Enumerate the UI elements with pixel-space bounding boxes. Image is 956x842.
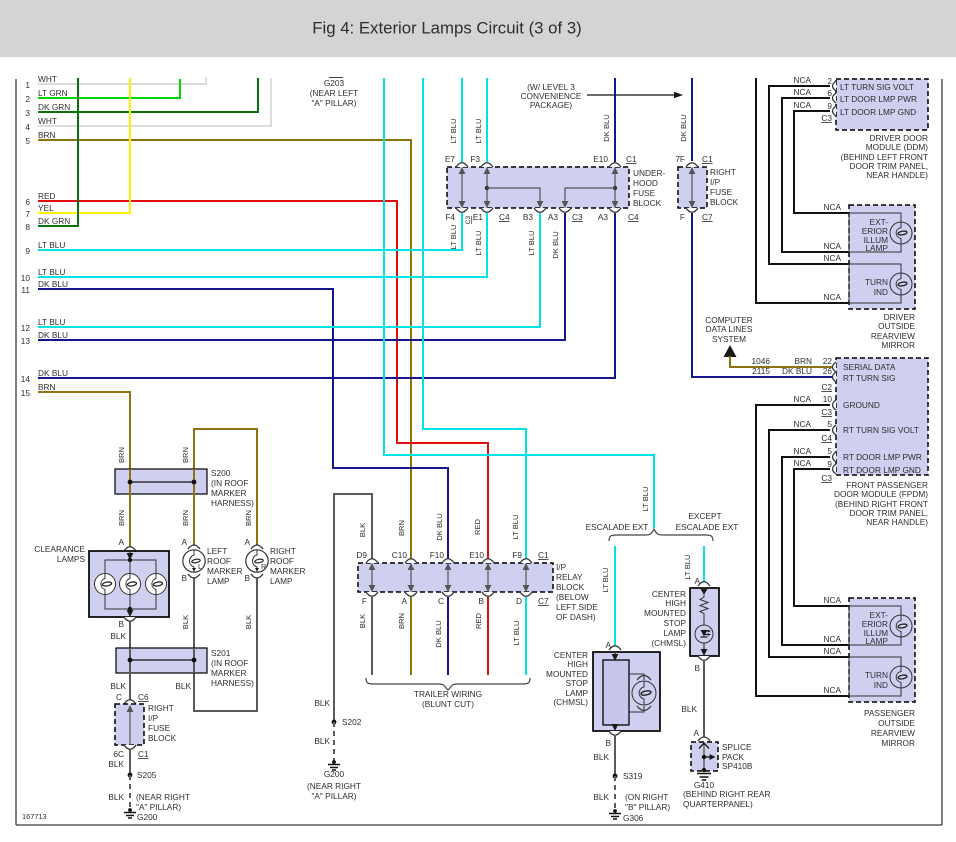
wire BRN S200 to left marker lamp <box>193 494 195 547</box>
svg-text:NCA: NCA <box>823 595 841 605</box>
wire LT BLU to F3 underhood fuse block <box>486 78 488 162</box>
svg-text:BLOCK: BLOCK <box>556 582 585 592</box>
svg-text:B: B <box>694 663 700 673</box>
clearance lamps internal loop <box>129 551 131 557</box>
left roof marker lamp <box>183 550 205 572</box>
wire 3 DK GRN <box>38 78 258 112</box>
svg-text:"B" PILLAR): "B" PILLAR) <box>625 802 670 812</box>
svg-text:C10: C10 <box>392 550 408 560</box>
svg-text:C3: C3 <box>572 212 583 222</box>
right CHMSL box (except escalade ext) <box>690 588 719 656</box>
svg-text:WHT: WHT <box>38 74 57 84</box>
pin E7 <box>456 163 468 167</box>
wire BLK left marker to S201 <box>193 577 195 648</box>
svg-text:E7: E7 <box>445 154 456 164</box>
svg-text:G203: G203 <box>324 78 345 88</box>
FPDM pin 26 <box>833 372 837 382</box>
svg-text:BRN: BRN <box>181 510 190 526</box>
svg-text:DK BLU: DK BLU <box>38 368 68 378</box>
svg-text:HOOD: HOOD <box>633 178 658 188</box>
right CHMSL bottom arrow <box>703 643 705 654</box>
wire NCA DDM pin9 to illum lamp top <box>794 111 849 213</box>
svg-text:ROOF: ROOF <box>270 556 294 566</box>
svg-text:NCA: NCA <box>823 685 841 695</box>
svg-text:LT DOOR LMP GND: LT DOOR LMP GND <box>840 107 916 117</box>
center CHMSL bulb branch <box>629 674 644 680</box>
frame right border <box>941 79 943 825</box>
svg-text:LT TURN SIG VOLT: LT TURN SIG VOLT <box>840 82 914 92</box>
clearance lamps bottom arrow <box>129 609 131 613</box>
wire NCA DDM pin6 to illum lamp bottom <box>782 98 849 252</box>
right I/P fuse block (top) <box>678 167 707 208</box>
svg-text:A3: A3 <box>548 212 559 222</box>
svg-text:8: 8 <box>25 222 30 232</box>
svg-text:BLK: BLK <box>593 792 609 802</box>
wire 6 RED to E10 of I/P relay block <box>38 201 488 559</box>
pin A3 <box>559 208 571 212</box>
svg-text:BLK: BLK <box>181 615 190 629</box>
trailer wiring brace <box>366 678 530 690</box>
underhood fuse block <box>447 167 629 208</box>
DDM pin 2 <box>833 81 837 91</box>
svg-text:22: 22 <box>823 356 833 366</box>
svg-text:(BLUNT CUT): (BLUNT CUT) <box>422 699 474 709</box>
svg-text:(NEAR RIGHT: (NEAR RIGHT <box>136 792 190 802</box>
svg-text:S200: S200 <box>211 468 231 478</box>
relay pin E10 <box>482 559 494 563</box>
passenger turn ind loop <box>849 657 901 696</box>
svg-text:C1: C1 <box>626 154 637 164</box>
svg-text:MOUNTED: MOUNTED <box>644 608 686 618</box>
wire BLK S205 to G200 <box>129 775 131 809</box>
svg-text:6: 6 <box>827 88 832 98</box>
svg-text:F9: F9 <box>512 550 522 560</box>
svg-text:C3: C3 <box>821 113 832 123</box>
svg-text:RIGHT: RIGHT <box>270 546 296 556</box>
svg-text:(IN ROOF: (IN ROOF <box>211 658 248 668</box>
svg-text:DK BLU: DK BLU <box>551 231 560 258</box>
svg-text:LAMP: LAMP <box>865 243 888 253</box>
svg-text:DATA LINES: DATA LINES <box>706 324 753 334</box>
ground G306 <box>613 809 617 813</box>
svg-text:LEFT SIDE: LEFT SIDE <box>556 602 598 612</box>
svg-text:B: B <box>118 619 124 629</box>
svg-text:QUARTERPANEL): QUARTERPANEL) <box>683 799 753 809</box>
pin E1 <box>481 208 493 212</box>
escalade split brace <box>609 529 713 541</box>
svg-text:LAMP: LAMP <box>207 576 230 586</box>
svg-text:NCA: NCA <box>793 75 811 85</box>
svg-text:14: 14 <box>21 374 31 384</box>
wire BLK CHMSL to splice pack <box>703 661 705 737</box>
FPDM pin 5 (C3) <box>833 452 837 462</box>
svg-text:RED: RED <box>473 518 482 535</box>
svg-text:A: A <box>693 728 699 738</box>
svg-text:9: 9 <box>25 246 30 256</box>
relay pin C10 <box>405 559 417 563</box>
svg-text:RT DOOR LMP GND: RT DOOR LMP GND <box>843 465 921 475</box>
svg-text:F: F <box>362 596 367 606</box>
right CHMSL pin B <box>698 656 710 660</box>
underhood fuse E7-F4 fusible link <box>461 170 463 205</box>
svg-text:9: 9 <box>827 101 832 111</box>
svg-text:LT BLU: LT BLU <box>511 514 520 539</box>
wire 8 DK GRN <box>38 78 78 226</box>
svg-text:C7: C7 <box>702 212 713 222</box>
svg-text:BLK: BLK <box>314 736 330 746</box>
svg-text:NEAR HANDLE): NEAR HANDLE) <box>866 517 928 527</box>
svg-text:A: A <box>181 537 187 547</box>
svg-text:TURN: TURN <box>865 277 888 287</box>
wire BLK CHMSL to S319 <box>614 736 616 776</box>
svg-text:5: 5 <box>827 446 832 456</box>
svg-text:A: A <box>401 596 407 606</box>
svg-text:1: 1 <box>25 80 30 90</box>
note arrow <box>587 94 675 96</box>
relay pin C <box>442 592 454 596</box>
svg-text:2: 2 <box>25 94 30 104</box>
relay pin D <box>520 592 532 596</box>
svg-text:G200: G200 <box>137 812 158 822</box>
svg-text:5: 5 <box>827 419 832 429</box>
driver turn ind loop <box>849 264 901 303</box>
passenger turn ind bulb <box>890 666 912 688</box>
svg-text:LT BLU: LT BLU <box>38 317 65 327</box>
DDM pin 6 <box>833 93 837 103</box>
svg-text:GROUND: GROUND <box>843 400 880 410</box>
svg-text:(NEAR LEFT: (NEAR LEFT <box>310 88 358 98</box>
svg-text:C1: C1 <box>702 154 713 164</box>
svg-text:NCA: NCA <box>793 87 811 97</box>
svg-text:IND: IND <box>874 287 888 297</box>
svg-text:RED: RED <box>38 191 56 201</box>
svg-text:CLEARANCE: CLEARANCE <box>34 544 85 554</box>
clearance lamp bulb 3 <box>146 574 167 595</box>
svg-text:C4: C4 <box>821 433 832 443</box>
svg-text:B: B <box>244 573 250 583</box>
wire 9 LT BLU to F4 underhood fuse block <box>38 213 462 250</box>
svg-text:B3: B3 <box>523 212 534 222</box>
svg-text:MARKER: MARKER <box>270 566 306 576</box>
right I/P fuse block (bottom) <box>115 704 144 745</box>
svg-text:HARNESS): HARNESS) <box>211 678 254 688</box>
svg-text:BLOCK: BLOCK <box>633 198 662 208</box>
svg-text:7: 7 <box>25 209 30 219</box>
svg-text:I/P: I/P <box>710 177 721 187</box>
svg-text:C6: C6 <box>138 692 149 702</box>
svg-text:NCA: NCA <box>793 100 811 110</box>
relay pin D9 <box>366 559 378 563</box>
svg-text:FUSE: FUSE <box>710 187 733 197</box>
svg-text:LT BLU: LT BLU <box>683 554 692 579</box>
svg-text:YEL: YEL <box>38 203 54 213</box>
svg-text:STOP: STOP <box>566 678 589 688</box>
computer data lines arrow <box>724 345 737 357</box>
FPDM pin 9 <box>833 464 837 474</box>
svg-text:I/P: I/P <box>556 562 567 572</box>
svg-text:BLK: BLK <box>175 681 191 691</box>
relay pin B <box>482 592 494 596</box>
svg-text:B: B <box>181 573 187 583</box>
pin E10 <box>609 163 621 167</box>
wire 5 BRN to C10 of I/P relay block <box>38 140 411 559</box>
svg-text:F4: F4 <box>445 212 455 222</box>
center CHMSL bottom arrow <box>614 725 616 729</box>
svg-text:"A" PILLAR): "A" PILLAR) <box>311 791 356 801</box>
svg-text:BRN: BRN <box>38 130 56 140</box>
svg-text:RT DOOR LMP PWR: RT DOOR LMP PWR <box>843 452 922 462</box>
splice S201 box <box>116 648 207 673</box>
svg-text:STOP: STOP <box>664 618 687 628</box>
svg-text:HIGH: HIGH <box>665 598 686 608</box>
svg-text:C3: C3 <box>821 407 832 417</box>
svg-text:S205: S205 <box>137 770 157 780</box>
splice S205 <box>128 773 133 778</box>
svg-text:RED: RED <box>474 612 483 629</box>
left roof marker lamp pin B bump <box>188 574 200 578</box>
pin F3 <box>481 163 493 167</box>
svg-text:6: 6 <box>25 197 30 207</box>
svg-text:ESCALADE EXT: ESCALADE EXT <box>676 522 739 532</box>
wire 14 DK BLU to A3 (C4) underhood fuse block <box>38 213 615 378</box>
svg-text:MIRROR: MIRROR <box>881 340 915 350</box>
svg-text:2: 2 <box>827 76 832 86</box>
svg-text:E10: E10 <box>469 550 484 560</box>
svg-text:NCA: NCA <box>793 419 811 429</box>
svg-text:3: 3 <box>25 108 30 118</box>
wire BLK S202 to G200 <box>333 722 335 761</box>
svg-text:(IN ROOF: (IN ROOF <box>211 478 248 488</box>
svg-text:(CHMSL): (CHMSL) <box>651 638 686 648</box>
svg-text:6C: 6C <box>113 749 124 759</box>
svg-text:NCA: NCA <box>823 634 841 644</box>
svg-text:C4: C4 <box>499 212 510 222</box>
wire BRN 1046 serial data <box>730 356 836 367</box>
svg-text:DK BLU: DK BLU <box>38 330 68 340</box>
svg-text:BLOCK: BLOCK <box>148 733 177 743</box>
splice S319 <box>613 774 618 779</box>
svg-text:BRN: BRN <box>117 510 126 526</box>
clearance lamp bulb 2 <box>120 574 141 595</box>
wire 2 LT GRN <box>38 79 180 98</box>
svg-text:BRN: BRN <box>38 382 56 392</box>
svg-text:DK BLU: DK BLU <box>602 114 611 141</box>
wire BLK to S205 <box>129 750 131 775</box>
svg-text:DK BLU: DK BLU <box>679 114 688 141</box>
svg-text:RIGHT: RIGHT <box>148 703 174 713</box>
svg-text:LT BLU: LT BLU <box>512 620 521 645</box>
pin A3 (C4) <box>609 208 621 212</box>
wire BRN trailer A <box>410 597 412 675</box>
svg-text:PACKAGE): PACKAGE) <box>530 100 572 110</box>
relay link F10-C <box>447 566 449 589</box>
svg-text:D: D <box>516 596 522 606</box>
FPDM pin 5 <box>833 425 837 435</box>
wire 7 YEL <box>38 78 130 213</box>
svg-text:NCA: NCA <box>793 446 811 456</box>
junction in fuse block to B3 <box>485 186 489 190</box>
svg-text:NCA: NCA <box>793 394 811 404</box>
svg-text:DK GRN: DK GRN <box>38 102 70 112</box>
relay link F9-D <box>525 566 527 589</box>
svg-text:LAMPS: LAMPS <box>57 554 86 564</box>
svg-text:LT BLU: LT BLU <box>601 567 610 592</box>
svg-text:TURN: TURN <box>865 670 888 680</box>
front passenger door module FPDM box <box>836 358 928 475</box>
svg-text:A: A <box>244 537 250 547</box>
driver exterior illum lamp loop <box>849 213 901 252</box>
wire NCA FPDM pin5 to passenger illum bottom <box>782 457 849 645</box>
svg-text:C2: C2 <box>821 382 832 392</box>
relay link C10-A <box>410 566 412 589</box>
svg-text:DK GRN: DK GRN <box>38 216 70 226</box>
relay pin F <box>366 592 378 596</box>
relay pin A <box>405 592 417 596</box>
svg-text:I/P: I/P <box>148 713 159 723</box>
svg-text:IND: IND <box>874 680 888 690</box>
center CHMSL inner module <box>603 660 629 725</box>
right I/P fuse block internal wire <box>129 707 131 745</box>
right roof marker lamp pin B bump <box>251 574 263 578</box>
svg-text:REARVIEW: REARVIEW <box>871 728 915 738</box>
svg-text:OUTSIDE: OUTSIDE <box>878 321 915 331</box>
svg-text:LT BLU: LT BLU <box>474 230 483 255</box>
wire NCA FPDM pin10 to passenger turn ind bottom <box>756 405 849 696</box>
svg-text:LT DOOR LMP PWR: LT DOOR LMP PWR <box>840 94 917 104</box>
svg-text:S201: S201 <box>211 648 231 658</box>
wire LT BLU trailer D <box>525 597 527 675</box>
svg-text:1046: 1046 <box>752 356 771 366</box>
svg-text:NCA: NCA <box>823 292 841 302</box>
svg-text:A3: A3 <box>598 212 609 222</box>
underhood fuse E10-A3 fusible link <box>614 170 616 205</box>
svg-text:NCA: NCA <box>823 241 841 251</box>
svg-text:B: B <box>605 738 611 748</box>
center CHMSL bulb <box>632 681 656 705</box>
svg-text:BRN: BRN <box>397 520 406 536</box>
svg-text:LAMP: LAMP <box>865 636 888 646</box>
wire NCA DDM pin2 to turn ind top <box>769 86 849 264</box>
svg-text:BLK: BLK <box>358 523 367 537</box>
svg-text:SYSTEM: SYSTEM <box>712 334 746 344</box>
driver turn ind bulb <box>890 273 912 295</box>
svg-text:DK BLU: DK BLU <box>38 279 68 289</box>
ground G200 near right A pillar <box>332 760 336 764</box>
wire DK BLU to 7F right I/P fuse block <box>691 78 693 161</box>
svg-text:BLK: BLK <box>108 792 124 802</box>
svg-text:S319: S319 <box>623 771 643 781</box>
svg-text:R: R <box>261 562 266 571</box>
svg-text:BLK: BLK <box>108 759 124 769</box>
svg-text:F: F <box>680 212 685 222</box>
svg-text:OF DASH): OF DASH) <box>556 612 596 622</box>
right CHMSL resistor <box>703 588 705 593</box>
svg-text:B: B <box>478 596 484 606</box>
clearance lamp bulb 1 <box>95 574 116 595</box>
svg-text:WHT: WHT <box>38 116 57 126</box>
svg-text:RIGHT: RIGHT <box>710 167 736 177</box>
driver door module DDM box <box>836 79 928 130</box>
svg-text:BLK: BLK <box>593 752 609 762</box>
svg-text:13: 13 <box>21 336 31 346</box>
wire 11 DK BLU to F10 of I/P relay block <box>38 289 448 559</box>
svg-text:ROOF: ROOF <box>207 556 231 566</box>
pin 7F <box>686 163 698 167</box>
svg-text:Fig 4: Exterior Lamps Circuit: Fig 4: Exterior Lamps Circuit (3 of 3) <box>312 19 582 38</box>
svg-text:RT TURN SIG: RT TURN SIG <box>843 373 896 383</box>
relay pin F10 <box>442 559 454 563</box>
FPDM pin 22 <box>833 362 837 372</box>
svg-text:NCA: NCA <box>823 646 841 656</box>
svg-text:C: C <box>116 692 122 702</box>
wire LT BLU except branch to CHMSL <box>703 546 705 584</box>
DDM pin 9 <box>833 106 837 116</box>
I/P relay block <box>358 563 553 592</box>
wire 4 WHT <box>38 78 271 126</box>
svg-text:F3: F3 <box>470 154 480 164</box>
svg-text:7F: 7F <box>675 154 685 164</box>
svg-text:F10: F10 <box>430 550 445 560</box>
svg-text:"A" PILLAR): "A" PILLAR) <box>311 98 356 108</box>
svg-text:G200: G200 <box>324 769 345 779</box>
svg-text:MODULE (DDM): MODULE (DDM) <box>866 142 928 152</box>
svg-text:D9: D9 <box>356 550 367 560</box>
svg-text:9: 9 <box>827 459 832 469</box>
svg-text:LT BLU: LT BLU <box>449 224 458 249</box>
S201 internal bus <box>129 648 131 673</box>
wire BLK D9 to S202/G200 <box>334 494 372 722</box>
svg-text:(NEAR RIGHT: (NEAR RIGHT <box>307 781 361 791</box>
center CHMSL box <box>593 652 660 731</box>
wire BLK trailer F <box>371 597 373 675</box>
wire BLK S319 to G306 <box>614 776 616 810</box>
center CHMSL pin B <box>609 731 621 735</box>
ground G410 <box>702 768 706 772</box>
svg-text:(ON RIGHT: (ON RIGHT <box>625 792 668 802</box>
svg-text:RELAY: RELAY <box>556 572 583 582</box>
pin F4 <box>456 208 468 212</box>
wire 15 BRN to S200 <box>38 392 130 470</box>
svg-text:C3: C3 <box>821 473 832 483</box>
svg-text:BLK: BLK <box>681 704 697 714</box>
svg-text:EXCEPT: EXCEPT <box>688 511 721 521</box>
svg-text:SERIAL DATA: SERIAL DATA <box>843 362 896 372</box>
svg-text:LT BLU: LT BLU <box>449 118 458 143</box>
svg-text:167713: 167713 <box>22 812 47 821</box>
svg-text:BLK: BLK <box>110 631 126 641</box>
svg-text:A: A <box>118 537 124 547</box>
svg-text:MIRROR: MIRROR <box>881 738 915 748</box>
wire DK BLU 2115 from right fuse to FPDM <box>692 213 836 377</box>
wire 12 LT BLU to B3 underhood fuse block <box>38 213 540 327</box>
header bar <box>0 0 956 57</box>
svg-text:10: 10 <box>21 273 31 283</box>
center CHMSL pin A <box>609 646 621 650</box>
svg-text:FUSE: FUSE <box>148 723 171 733</box>
svg-text:LAMP: LAMP <box>663 628 686 638</box>
svg-text:PASSENGER: PASSENGER <box>864 708 915 718</box>
svg-text:15: 15 <box>21 388 31 398</box>
svg-text:C1: C1 <box>138 749 149 759</box>
wire LT BLU escalade branch to center CHMSL <box>614 546 616 649</box>
wire NCA FPDM pin9 to passenger illum top <box>794 469 849 606</box>
svg-text:LAMP: LAMP <box>270 576 293 586</box>
wire 13 DK BLU to A3 underhood fuse block <box>38 213 565 340</box>
svg-text:NEAR HANDLE): NEAR HANDLE) <box>866 170 928 180</box>
splice pack internals <box>703 743 705 769</box>
wire BRN bridge S200 to right marker lamp <box>194 429 257 547</box>
passenger exterior illum lamp loop <box>849 606 901 645</box>
